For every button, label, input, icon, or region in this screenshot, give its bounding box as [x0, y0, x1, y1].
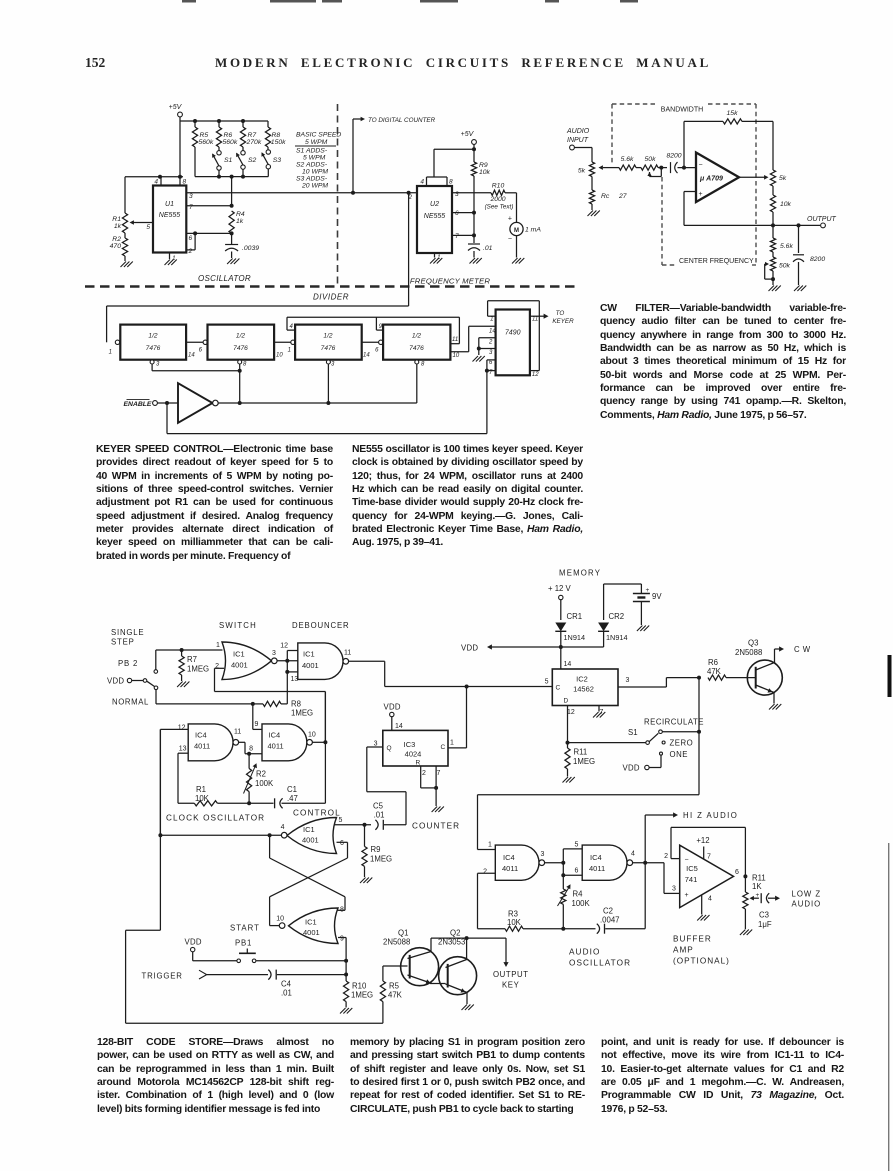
svg-text:PB 2: PB 2 — [118, 659, 138, 668]
svg-text:LOW Z: LOW Z — [792, 890, 822, 899]
svg-text:2: 2 — [664, 853, 668, 860]
svg-text:11: 11 — [234, 729, 241, 736]
wire U1 pin7 to R4 — [186, 205, 231, 207]
capacitor C5 .01 — [375, 820, 378, 830]
wire U2 pin7 — [452, 234, 474, 236]
resistor R1 10K — [194, 801, 217, 806]
svg-text:U1: U1 — [165, 201, 174, 208]
pot R11 1K (output level) — [744, 876, 746, 892]
svg-text:R4: R4 — [573, 890, 584, 899]
IC U1 NE555 — [153, 186, 186, 253]
meter M 1 mA — [510, 222, 523, 235]
HI Z AUDIO arrow — [645, 814, 675, 816]
svg-text:AMP: AMP — [673, 946, 694, 955]
svg-text:3: 3 — [455, 191, 459, 198]
svg-text:+5V: +5V — [169, 104, 183, 111]
svg-text:8: 8 — [249, 746, 253, 753]
NAND gate IC4a (clock osc) — [188, 724, 233, 761]
svg-text:10k: 10k — [780, 201, 792, 208]
svg-text:14: 14 — [564, 661, 572, 668]
IC2 pin12 to R11/S1 node — [567, 706, 569, 743]
wire IC4a pin12 input — [160, 728, 188, 730]
svg-text:IC2: IC2 — [576, 675, 588, 684]
svg-text:9: 9 — [255, 721, 259, 728]
ground below meter — [512, 258, 518, 264]
svg-text:R5: R5 — [389, 982, 400, 991]
wire inverter output bus — [218, 402, 417, 404]
diode CR1 1N914 — [560, 600, 562, 620]
svg-text:AUDIO: AUDIO — [566, 128, 590, 135]
svg-text:DIVIDER: DIVIDER — [313, 293, 349, 302]
svg-text:1 mA: 1 mA — [525, 227, 541, 234]
svg-text:12: 12 — [532, 372, 539, 378]
wire non-inverting input return — [684, 191, 696, 193]
svg-text:7: 7 — [189, 204, 193, 211]
svg-text:1MEG: 1MEG — [351, 991, 373, 1000]
IC IC3 4024 — [383, 730, 448, 766]
svg-text:C5: C5 — [373, 802, 384, 811]
ground below R2 — [124, 256, 126, 261]
resistor 10k — [772, 186, 774, 195]
svg-text:INPUT: INPUT — [567, 137, 589, 144]
svg-text:R1: R1 — [112, 216, 121, 223]
svg-text:4001: 4001 — [231, 661, 248, 670]
svg-text:SWITCH: SWITCH — [219, 621, 257, 630]
trimpot R4 100K — [562, 875, 564, 889]
resistor 5.6k (output divider) — [772, 225, 774, 238]
svg-text:5 WPM: 5 WPM — [305, 139, 328, 146]
svg-text:470: 470 — [110, 243, 122, 250]
wire op-amp output to 5k pot — [739, 176, 765, 178]
svg-text:IC3: IC3 — [404, 740, 416, 749]
svg-text:1MEG: 1MEG — [291, 709, 313, 718]
svg-text:PB1: PB1 — [235, 939, 252, 948]
svg-text:BUFFER: BUFFER — [673, 935, 712, 944]
svg-text:8: 8 — [340, 907, 344, 914]
svg-text:START: START — [230, 924, 260, 933]
svg-text:.47: .47 — [287, 794, 298, 803]
wire R8 node down to IC4b pin9 — [252, 704, 254, 730]
svg-text:3: 3 — [156, 362, 160, 368]
ground below R7 — [177, 682, 183, 688]
svg-text:6: 6 — [375, 348, 379, 354]
svg-text:4: 4 — [708, 896, 712, 903]
battery 9V — [604, 583, 642, 585]
ground below .01 — [470, 258, 476, 264]
svg-text:11: 11 — [532, 317, 538, 323]
capacitor C1 .47 — [274, 798, 276, 808]
svg-text:.0039: .0039 — [242, 245, 259, 252]
resistor R8 1MEG (bottom) — [251, 702, 255, 706]
Q2 collector — [446, 960, 467, 968]
svg-text:ENABLE: ENABLE — [124, 401, 152, 408]
svg-text:10: 10 — [453, 353, 460, 359]
svg-text:+: + — [508, 216, 512, 223]
svg-text:4011: 4011 — [194, 742, 210, 751]
wire FF2 to FF3 — [274, 341, 291, 343]
svg-text:1N914: 1N914 — [606, 633, 628, 642]
wire U2 pin6 — [452, 212, 474, 214]
wire preset loop FF3 pin4 / FF4 pin9 / FF4 pin11 — [287, 316, 459, 318]
dashed box BANDWIDTH / CENTER FREQUENCY — [612, 104, 756, 265]
svg-text:1: 1 — [488, 842, 492, 849]
wire IC1a pin2 from clock output — [215, 667, 225, 669]
svg-text:U2: U2 — [430, 201, 439, 208]
flip-flop FF2 1/2 7476 — [208, 325, 275, 360]
svg-text:C W: C W — [794, 645, 811, 654]
resistor R10 1MEG — [345, 975, 347, 982]
Q3 emitter — [756, 685, 774, 693]
resistor 5.6k — [619, 165, 636, 170]
svg-text:7: 7 — [707, 854, 711, 861]
svg-text:S1: S1 — [224, 157, 233, 164]
capacitor C3 1uF to LOW Z AUDIO — [750, 896, 754, 901]
svg-text:+ 12 V: + 12 V — [548, 584, 572, 593]
svg-text:2: 2 — [488, 340, 493, 346]
svg-text:R10: R10 — [352, 982, 367, 991]
svg-text:.01: .01 — [281, 989, 292, 998]
svg-text:4: 4 — [290, 324, 294, 330]
svg-text:5.6k: 5.6k — [780, 243, 793, 250]
svg-text:C4: C4 — [281, 980, 292, 989]
svg-text:COUNTER: COUNTER — [412, 822, 460, 831]
svg-text:10 WPM: 10 WPM — [302, 169, 328, 176]
svg-text:VDD: VDD — [185, 938, 202, 947]
feedback resistor 15k — [683, 121, 685, 167]
ground 7490 pins 2-3 — [473, 356, 479, 362]
switch S3 — [266, 150, 270, 154]
svg-text:R2: R2 — [112, 236, 121, 243]
svg-text:R: R — [416, 760, 421, 767]
svg-text:S3: S3 — [273, 157, 282, 164]
wire U1 pin3 output — [186, 192, 417, 194]
capacitor 8200 (input) — [670, 162, 672, 173]
svg-text:R9: R9 — [479, 162, 488, 169]
svg-text:R7: R7 — [248, 132, 257, 139]
wire speed node down to R4 — [231, 177, 233, 206]
svg-text:NE555: NE555 — [424, 213, 446, 220]
wire enable return to 7490 pins 6-7 — [166, 403, 168, 434]
svg-text:47K: 47K — [707, 667, 722, 676]
svg-text:2: 2 — [422, 770, 426, 777]
svg-text:+: + — [646, 587, 650, 594]
svg-text:4011: 4011 — [268, 742, 284, 751]
svg-text:13: 13 — [291, 676, 299, 683]
wire debouncer output to IC2 pin5 — [349, 660, 385, 662]
svg-text:AUDIO: AUDIO — [792, 900, 822, 909]
ground below R9 — [360, 878, 366, 884]
svg-text:3: 3 — [189, 193, 193, 200]
svg-text:6: 6 — [489, 360, 493, 366]
resistor R5 47K — [382, 1002, 384, 1024]
wire pin4/8 bridge — [125, 176, 183, 178]
svg-text:3: 3 — [626, 677, 630, 684]
svg-text:6: 6 — [575, 867, 579, 874]
switch S1 — [217, 151, 221, 155]
svg-text:7490: 7490 — [505, 330, 521, 337]
wire IC4d output node — [633, 862, 664, 864]
switch S1 recirculate/zero/one — [568, 742, 646, 744]
svg-text:ONE: ONE — [670, 750, 688, 759]
svg-text:C3: C3 — [759, 911, 769, 920]
svg-text:7476: 7476 — [409, 345, 424, 352]
svg-text:S2: S2 — [248, 157, 257, 164]
IC5 pin4 ground — [701, 895, 703, 914]
svg-text:R10: R10 — [492, 182, 505, 189]
wire single-step contact up to R7 node — [155, 650, 157, 670]
svg-text:7476: 7476 — [233, 345, 248, 352]
svg-text:BANDWIDTH: BANDWIDTH — [661, 107, 703, 114]
wire control output to left rail — [160, 834, 281, 836]
svg-text:NE555: NE555 — [159, 212, 181, 219]
svg-text:1MEG: 1MEG — [370, 855, 392, 864]
op-amp uA709 — [696, 153, 739, 203]
svg-text:1: 1 — [490, 317, 493, 323]
svg-text:6: 6 — [199, 348, 203, 354]
svg-text:MEMORY: MEMORY — [559, 569, 601, 578]
capacitor C2 .0047 — [597, 924, 600, 934]
wire switch-bank bottom rail — [195, 176, 268, 178]
svg-text:TO DIGITAL COUNTER: TO DIGITAL COUNTER — [368, 117, 436, 124]
svg-text:14562: 14562 — [573, 685, 594, 694]
svg-text:R4: R4 — [236, 211, 245, 218]
svg-text:1/2: 1/2 — [323, 333, 332, 340]
svg-text:8: 8 — [449, 179, 453, 186]
inverter gate (enable) — [178, 383, 213, 423]
capacitor .01 (meter) — [468, 243, 480, 245]
resistor R9 1MEG — [364, 825, 366, 847]
svg-text:1: 1 — [216, 642, 220, 649]
svg-text:VDD: VDD — [107, 677, 124, 686]
svg-text:7: 7 — [455, 233, 459, 240]
wire FF1 pin3 down — [150, 360, 154, 364]
wire Q3 node vertical — [698, 678, 700, 732]
svg-text:HI Z AUDIO: HI Z AUDIO — [683, 811, 738, 820]
svg-text:50k: 50k — [645, 156, 657, 163]
ground below .0039 — [227, 259, 233, 265]
svg-text:IC1: IC1 — [233, 650, 245, 659]
svg-text:CONTROL: CONTROL — [293, 809, 341, 818]
svg-text:560k: 560k — [223, 139, 238, 146]
svg-text:IC5: IC5 — [686, 864, 698, 873]
ground IC3 pin7 — [432, 807, 438, 813]
svg-text:D: D — [564, 698, 569, 705]
svg-text:5: 5 — [146, 224, 150, 231]
capacitor 8200 (output) — [798, 225, 800, 253]
svg-text:8: 8 — [421, 362, 425, 368]
svg-text:SINGLE: SINGLE — [111, 628, 144, 637]
scan artifact right edge bar — [888, 655, 892, 697]
op-amp IC5 741 — [680, 845, 734, 907]
svg-text:R7: R7 — [187, 655, 197, 664]
svg-text:C1: C1 — [287, 785, 297, 794]
svg-text:8: 8 — [243, 362, 247, 368]
wire memory node to IC2 pin14 — [560, 647, 562, 669]
pot 5k (output) — [770, 170, 775, 186]
svg-text:VDD: VDD — [461, 644, 478, 653]
svg-text:5.6k: 5.6k — [621, 156, 634, 163]
NOR gate IC1a (switch) — [222, 642, 272, 680]
wire U2 pin3 to R10 — [452, 192, 491, 194]
svg-text:Q3: Q3 — [748, 639, 758, 648]
wire IC4a output to IC4b pin8 — [239, 741, 245, 743]
svg-text:7476: 7476 — [146, 345, 161, 352]
wire IC3 pin1 clock input — [448, 747, 467, 749]
svg-text:RECIRCULATE: RECIRCULATE — [644, 718, 704, 727]
svg-text:3: 3 — [489, 350, 493, 356]
wire FF3 pin3 down — [326, 360, 330, 364]
NAND gate IC4d (audio osc) — [582, 845, 627, 880]
svg-text:OSCILLATOR: OSCILLATOR — [569, 959, 631, 968]
svg-text:S2 ADDS-: S2 ADDS- — [296, 162, 328, 169]
svg-text:4011: 4011 — [589, 864, 605, 873]
trimpot R2 100K — [248, 754, 250, 769]
wire latch pin9 node — [338, 937, 346, 939]
wire IC1a output to debouncer — [277, 660, 298, 662]
svg-text:5k: 5k — [578, 168, 586, 175]
svg-text:+: + — [756, 892, 760, 899]
svg-text:OUTPUT: OUTPUT — [807, 216, 837, 223]
wire 7490 pin12 to pin1 loop — [530, 370, 539, 372]
svg-text:2: 2 — [483, 869, 487, 876]
resistor R2 470 — [124, 233, 126, 238]
left rail / trigger loop — [159, 729, 161, 930]
svg-text:4: 4 — [420, 179, 424, 186]
svg-text:6: 6 — [735, 869, 739, 876]
svg-text:1/2: 1/2 — [236, 333, 245, 340]
dashed section divider horizontal — [85, 285, 578, 288]
wire recirculate contact to Q3 node — [662, 731, 699, 733]
svg-text:8200: 8200 — [810, 256, 825, 263]
svg-text:.0047: .0047 — [600, 915, 620, 924]
ground below battery — [637, 626, 643, 632]
svg-text:VDD: VDD — [623, 764, 640, 773]
flip-flop FF3 1/2 7476 — [295, 325, 362, 360]
resistor R6 560k — [216, 127, 221, 147]
resistor R10 2000 (See Text) — [491, 190, 505, 195]
resistor R5 560k — [192, 127, 197, 147]
ground below R10 — [340, 1008, 346, 1014]
svg-text:12: 12 — [567, 709, 575, 716]
svg-text:9: 9 — [340, 936, 344, 943]
svg-text:OUTPUT: OUTPUT — [493, 970, 529, 979]
svg-text:KEYER: KEYER — [552, 318, 574, 325]
IC2 pin7 ground — [598, 706, 600, 712]
OUTPUT terminal — [773, 224, 820, 226]
wire IC5 pin3 from audio node — [663, 863, 665, 894]
ground below U1 pin 1 — [169, 253, 171, 260]
capacitor .0039 — [231, 233, 233, 244]
svg-text:12: 12 — [178, 725, 186, 732]
svg-text:IC1: IC1 — [305, 918, 317, 927]
svg-text:2N3053: 2N3053 — [438, 938, 465, 947]
switch PB2 single-step/normal — [132, 680, 143, 682]
svg-text:1N914: 1N914 — [564, 633, 586, 642]
svg-text:Q: Q — [387, 745, 392, 752]
svg-text:5: 5 — [545, 679, 549, 686]
pot 50k (bandwidth) — [636, 167, 641, 169]
svg-text:.01: .01 — [483, 245, 493, 252]
svg-text:5: 5 — [575, 842, 579, 849]
IC IC2 14562 — [552, 669, 618, 706]
svg-text:R2: R2 — [256, 770, 266, 779]
Q2 emitter to ground — [446, 984, 468, 993]
svg-text:150k: 150k — [271, 139, 286, 146]
svg-text:10: 10 — [308, 732, 316, 739]
svg-text:7: 7 — [437, 770, 441, 777]
svg-text:VDD: VDD — [384, 703, 401, 712]
resistor Rc 27 — [591, 177, 593, 191]
capacitor C4 .01 — [268, 970, 271, 980]
svg-text:3: 3 — [672, 886, 676, 893]
svg-text:6: 6 — [189, 235, 193, 242]
svg-text:μ A709: μ A709 — [699, 176, 723, 183]
wire normal contact to R8 rail — [155, 690, 157, 704]
OUTPUT KEY arrow — [505, 938, 507, 963]
flip-flop FF1 1/2 7476 — [115, 340, 119, 344]
wire IC4b output node — [312, 741, 325, 743]
svg-text:9V: 9V — [652, 592, 662, 601]
ground below 8200 — [794, 286, 800, 292]
resistor R6 47K — [708, 675, 726, 680]
svg-text:1k: 1k — [236, 218, 244, 225]
switch S2 — [241, 151, 245, 155]
wire FF4 pin8 down — [415, 360, 419, 364]
svg-text:10K: 10K — [195, 794, 210, 803]
wire FF1 to FF2 — [186, 341, 203, 343]
wire recirculate node to audio osc — [478, 794, 700, 796]
svg-text:M: M — [514, 228, 519, 234]
svg-text:CLOCK OSCILLATOR: CLOCK OSCILLATOR — [166, 814, 265, 823]
svg-text:CENTER FREQUENCY: CENTER FREQUENCY — [679, 258, 754, 265]
svg-text:R1: R1 — [196, 785, 206, 794]
svg-text:13: 13 — [179, 746, 187, 753]
svg-text:3: 3 — [331, 362, 335, 368]
wire IC2 pin3 to R6 — [618, 686, 666, 688]
wire FF2 pin8 down — [238, 360, 242, 364]
svg-text:741: 741 — [685, 875, 698, 884]
pot 50k (center frequency) — [772, 252, 774, 257]
resistor R11 1MEG (recirculate) — [567, 743, 569, 748]
svg-text:C2: C2 — [603, 907, 613, 916]
svg-text:10k: 10k — [479, 169, 491, 176]
svg-text:1/2: 1/2 — [148, 333, 157, 340]
svg-text:S3 ADDS-: S3 ADDS- — [296, 176, 328, 183]
Q1 emitter to Q2 base — [408, 975, 433, 984]
wire to digital counter branch — [352, 119, 354, 193]
svg-text:2N5088: 2N5088 — [383, 938, 410, 947]
svg-text:4001: 4001 — [303, 928, 320, 937]
svg-text:100K: 100K — [255, 779, 274, 788]
svg-text:TRIGGER: TRIGGER — [142, 972, 183, 981]
svg-text:10: 10 — [276, 353, 283, 359]
svg-text:11: 11 — [344, 650, 351, 657]
latch cross-coupling — [337, 841, 348, 843]
wire +5V down to U1 pins 4/8 — [179, 121, 181, 177]
wire +5V rail — [180, 120, 268, 122]
svg-text:1: 1 — [450, 740, 454, 747]
svg-text:3: 3 — [272, 650, 276, 657]
resistor R4 1k — [229, 211, 234, 233]
svg-text:6: 6 — [340, 840, 344, 847]
svg-text:4: 4 — [281, 824, 285, 831]
svg-text:7476: 7476 — [321, 345, 336, 352]
svg-text:FREQUENCY METER: FREQUENCY METER — [410, 277, 490, 286]
svg-text:12: 12 — [280, 643, 288, 650]
svg-text:R9: R9 — [371, 845, 381, 854]
svg-text:+: + — [684, 892, 688, 899]
flip-flop FF4 1/2 7476 — [383, 325, 450, 360]
